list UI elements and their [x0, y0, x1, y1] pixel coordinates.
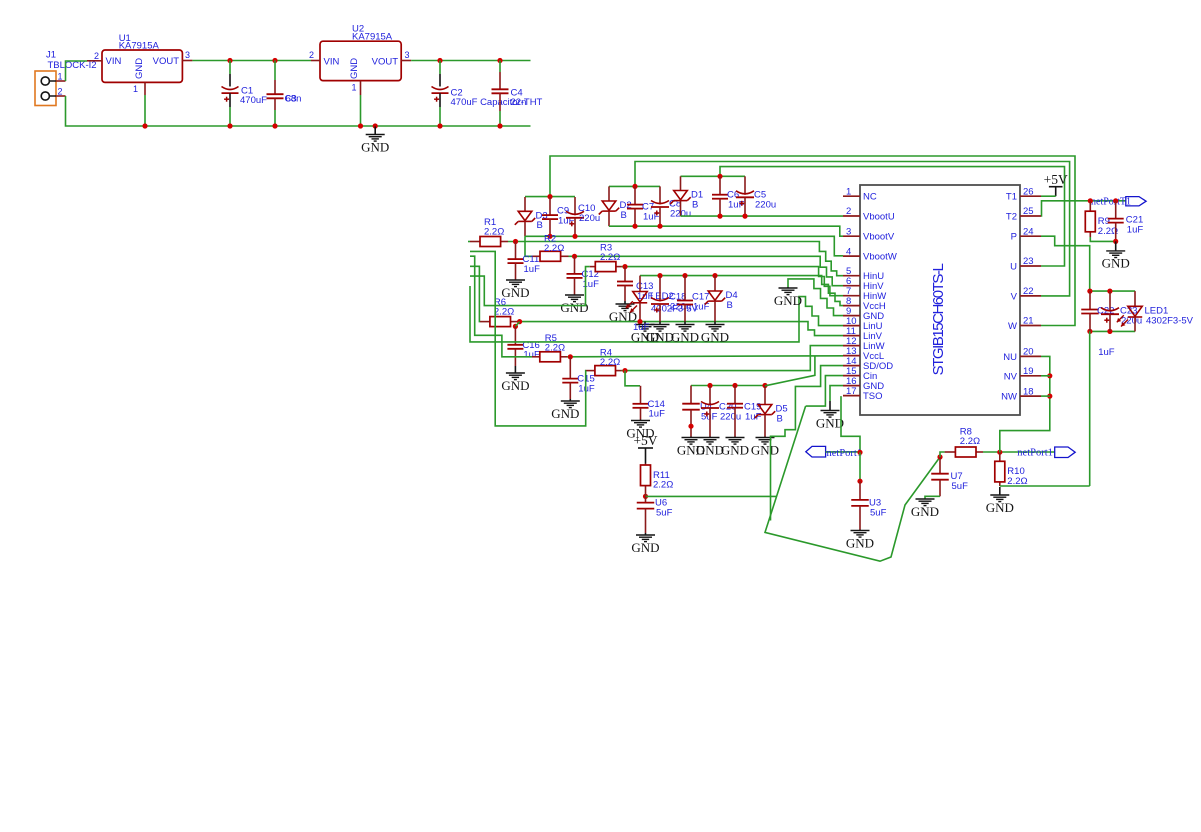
svg-text:GND: GND [349, 58, 360, 79]
svg-text:2: 2 [58, 87, 63, 97]
svg-text:NW: NW [1001, 392, 1017, 403]
junction at 685,275.6 [682, 273, 687, 278]
capacitor C21 1uF [1108, 201, 1144, 242]
ground GND under C11 [501, 280, 529, 300]
junction at 1090.3,200.8 [1088, 198, 1093, 203]
junction at 1049.8,375.8 [1047, 373, 1052, 378]
svg-text:GND: GND [986, 500, 1014, 515]
svg-text:220u: 220u [755, 199, 776, 210]
capacitor C3 68n [267, 61, 302, 127]
junction on U4 lead [688, 424, 693, 429]
svg-text:19: 19 [1023, 366, 1034, 377]
wire R11 junction to diagonal [646, 495, 777, 497]
svg-text:2: 2 [94, 51, 99, 61]
value label 1uF of C13 [633, 322, 650, 333]
value label 1uF of C22 [1098, 347, 1115, 358]
resistor R11 body [641, 465, 674, 491]
IC U5 STGIB15CH60TS-L [860, 185, 1020, 415]
resistor R9 body [1085, 211, 1118, 237]
svg-text:+5V: +5V [633, 433, 657, 448]
svg-text:5uF: 5uF [952, 481, 969, 492]
pin 21 W [1008, 316, 1041, 332]
junction at 230,60.5 [227, 58, 232, 63]
ground GND under R10 [986, 487, 1014, 515]
wire pin 15 Cin to diagonal [806, 376, 843, 407]
capacitor C19 1uF [727, 386, 762, 437]
svg-text:1uF: 1uF [1127, 224, 1144, 235]
capacitor C6 1uF [712, 176, 745, 216]
junction at 635,226.2 [632, 224, 637, 229]
wire R4 junction down to C14 [625, 371, 640, 386]
resistor R8 body [955, 427, 980, 458]
wire U7 to ground [925, 496, 940, 499]
svg-text:B: B [727, 300, 733, 311]
svg-text:V: V [1011, 291, 1018, 302]
junction at 575,236.3 [572, 234, 577, 239]
svg-text:68n: 68n [286, 93, 302, 104]
wire top rail A (D3 cluster to pin 21 W) [550, 156, 1075, 326]
svg-text:24: 24 [1023, 226, 1034, 237]
resistor R10 2.2ohm vertical leads [999, 452, 1001, 486]
pin 17 TSO [843, 386, 883, 402]
svg-text:netPortT1: netPortT1 [1091, 197, 1131, 208]
ground GND under U7 [911, 499, 939, 519]
wire bundle net D to R3 input [470, 267, 590, 306]
svg-text:1uF: 1uF [649, 409, 666, 420]
wire D5 to ground [764, 415, 766, 437]
capacitor U7 5uF [931, 471, 968, 496]
diode D2 zener lead [608, 186, 610, 201]
pin 16 GND [843, 376, 884, 392]
svg-text:KA7915A: KA7915A [352, 31, 393, 42]
svg-text:TSO: TSO [863, 391, 883, 402]
capacitor U3 5uF [851, 481, 886, 529]
wire C22 cluster top rail [1090, 290, 1135, 292]
wire bundle net E to R5 input [470, 256, 532, 357]
wire R2 output to pin 6 HinV [569, 256, 844, 285]
svg-text:1uF: 1uF [633, 322, 650, 333]
junction at 720,216.1 [717, 214, 722, 219]
svg-text:4: 4 [846, 246, 851, 257]
wire D2 cathode lead [608, 211, 610, 226]
svg-text:1uF: 1uF [745, 411, 762, 422]
svg-text:GND: GND [361, 139, 389, 154]
diode D4 zener lead [714, 276, 716, 291]
resistor R5 body [540, 333, 565, 362]
svg-text:NU: NU [1003, 352, 1017, 363]
svg-text:3: 3 [846, 226, 851, 237]
wire D3 cluster top rail [525, 196, 575, 198]
svg-text:220u: 220u [720, 411, 741, 422]
svg-text:18: 18 [1023, 386, 1034, 397]
diode D1 zener lead [680, 176, 682, 190]
svg-text:1: 1 [846, 186, 851, 197]
capacitor C23 220u polarized [1101, 291, 1142, 331]
junction at 145,126 [142, 123, 147, 128]
svg-text:GND: GND [774, 293, 802, 308]
wire VbootV rail to pin 3 [609, 226, 843, 236]
svg-text:1uF: 1uF [578, 383, 595, 394]
svg-text:KA7915A: KA7915A [119, 41, 160, 52]
svg-text:B: B [692, 199, 698, 210]
capacitor C18 220u polarized [651, 276, 691, 322]
wire pin 26 T1 to +5V [1041, 195, 1056, 197]
svg-text:23: 23 [1023, 256, 1034, 267]
wire U2 GND pin down [360, 95, 362, 126]
ground rail wire [145, 125, 531, 127]
ground GND pin 16 [816, 401, 844, 430]
pin 13 VccL [843, 346, 884, 362]
svg-text:22n: 22n [511, 97, 527, 108]
junction at 635,186.4 [632, 184, 637, 189]
pin 9 GND [843, 306, 884, 322]
capacitor C13 1uF [617, 267, 654, 302]
svg-text:B: B [537, 220, 543, 231]
ground GND under C15 [551, 399, 580, 421]
junction at 1109.9,331.4 [1107, 329, 1112, 334]
junction at 515.4,326.4 [513, 324, 518, 329]
wire D1 cluster top rail [681, 175, 746, 177]
svg-text:GND: GND [751, 442, 779, 457]
wire bundle net B to R4 input [470, 251, 586, 426]
wire pin 20 NU down to R8 node [1000, 356, 1050, 452]
ground GND under U4 [677, 437, 705, 458]
svg-text:+5V: +5V [1044, 172, 1068, 187]
junction at 1109.9,291.1 [1107, 289, 1112, 294]
svg-text:GND: GND [646, 329, 674, 344]
svg-text:1uF: 1uF [1098, 347, 1115, 358]
capacitor C15 1uF [562, 357, 595, 399]
svg-text:2: 2 [309, 50, 314, 60]
capacitor C10 220u polarized [566, 197, 600, 236]
diode D2 zener body [599, 200, 632, 221]
junction at 275,126 [272, 123, 277, 128]
wire C22 cluster bottom rail [1090, 330, 1135, 332]
junction at 860,481.2 [857, 479, 862, 484]
pin 8 VccH [843, 296, 886, 312]
power +5V symbol top right [1044, 172, 1068, 196]
capacitor C8 220u polarized [651, 186, 691, 226]
svg-text:STGIB15CH60TS-L: STGIB15CH60TS-L [930, 263, 947, 375]
ground GND under C21 [1102, 241, 1130, 270]
wire R1 output to pin 5 HinU [508, 242, 843, 276]
junction at 1115.7,200.8 [1113, 198, 1118, 203]
svg-text:25: 25 [1023, 206, 1034, 217]
capacitor U6 5uF [637, 496, 673, 533]
capacitor C12 1uF [567, 256, 600, 295]
resistor R1 body [480, 217, 504, 247]
svg-text:netPort1: netPort1 [827, 448, 863, 459]
junction at 999.8,452.2 [997, 450, 1002, 455]
wire pin 16 GND to ground [830, 386, 843, 401]
wire J1 pin2 to ground rail [66, 96, 146, 126]
resistor R2 body [540, 234, 564, 262]
junction at 440,126 [437, 123, 442, 128]
wire D3 rail drop to R2 input [525, 236, 533, 256]
wire netPort to U3 [859, 452, 861, 481]
svg-text:GND: GND [631, 540, 659, 555]
wire ground to pin 9 GND [788, 279, 843, 316]
svg-text:220u: 220u [670, 301, 691, 312]
wire R8 output to netPort1 [983, 451, 1055, 453]
wire pin 14 SD/OD net staircase [771, 366, 844, 521]
svg-text:17: 17 [846, 386, 857, 397]
resistor R3 2.2ohm [590, 266, 622, 268]
regulator U1 KA7915A [87, 33, 192, 95]
svg-text:220u: 220u [579, 213, 600, 224]
wire jog to C16 [515, 322, 519, 327]
svg-text:470uF: 470uF [240, 95, 267, 106]
svg-text:VbootV: VbootV [863, 232, 895, 243]
junction at 765,385.5 [762, 383, 767, 388]
pin 1 NC [843, 186, 877, 202]
resistor R6 2.2ohm [480, 321, 517, 323]
junction at 515.5,241.5 [513, 239, 518, 244]
pin 23 U [1010, 256, 1041, 272]
svg-text:2.2Ω: 2.2Ω [545, 342, 565, 353]
svg-text:5uF: 5uF [870, 507, 887, 518]
wire R10 bottom to right rail [1000, 485, 1090, 487]
pin 12 LinW [843, 336, 885, 352]
ground GND under C13 [609, 301, 637, 324]
wire D1 cathode lead [680, 201, 682, 217]
svg-text:VOUT: VOUT [153, 56, 180, 67]
svg-text:26: 26 [1023, 186, 1034, 197]
svg-text:2.2Ω: 2.2Ω [960, 436, 980, 447]
svg-text:22: 22 [1023, 286, 1034, 297]
junction at 519.6,321.6 [517, 319, 522, 324]
wire VbootU rail to pin 2 [681, 215, 844, 217]
wire VbootW rail to pin 4 [525, 236, 843, 256]
capacitor C1 470uF polarized [222, 61, 268, 127]
junction at 500,126 [497, 123, 502, 128]
wire U2 VOUT rail [411, 60, 530, 62]
capacitor U7 5uF lead [939, 457, 941, 474]
svg-text:GND: GND [134, 58, 145, 79]
pin 3 VbootV [843, 226, 895, 242]
pin 19 NV [1004, 366, 1041, 382]
wire top rail C (D1 cluster to pin 23 U) [720, 167, 1065, 266]
diode D4 zener body [705, 290, 738, 311]
junction at 645.5,496.4 [643, 494, 648, 499]
pin 5 HinU [843, 266, 884, 282]
pin 14 SD/OD [843, 356, 893, 372]
svg-text:GND: GND [551, 406, 579, 421]
ground GND under C14 [626, 420, 654, 441]
svg-text:GND: GND [721, 442, 749, 457]
svg-text:1: 1 [352, 83, 357, 93]
resistor R8 2.2ohm stubs [945, 451, 983, 453]
ground GND under LED2 [631, 322, 659, 345]
diode D5 zener lead [764, 386, 766, 405]
svg-text:5uF: 5uF [656, 507, 673, 518]
pin 7 HinW [843, 286, 886, 302]
wire pin 24 P to C22 cluster [1041, 236, 1090, 291]
wire R11 to junction [645, 492, 647, 496]
pin 4 VbootW [843, 246, 897, 262]
wire pin 18 NW [1041, 395, 1050, 397]
svg-text:2.2Ω: 2.2Ω [653, 480, 673, 491]
power +5V symbol [633, 433, 657, 463]
resistor R2 2.2ohm [533, 255, 569, 257]
svg-text:2.2Ω: 2.2Ω [494, 306, 514, 317]
wire U1 VOUT rail [192, 60, 311, 62]
wire pin 19 NV [1041, 375, 1050, 377]
pin 20 NU [1003, 347, 1041, 363]
junction at 440,60.5 [437, 58, 442, 63]
junction at 230,126 [227, 123, 232, 128]
diode D1 zener body [670, 190, 703, 211]
net port netPort1 (right) [1017, 447, 1075, 459]
svg-text:2.2Ω: 2.2Ω [600, 357, 620, 368]
ground GND under U6 [631, 533, 659, 555]
svg-text:3: 3 [405, 50, 410, 60]
wire R3 output to pin 7 HinW [622, 267, 844, 296]
resistor R11 2.2ohm vertical lead [645, 464, 647, 493]
wire bundle net A to pin 10 LinU [470, 286, 843, 342]
ground GND under C20 [696, 437, 724, 458]
resistor R10 body [995, 461, 1028, 487]
svg-text:20: 20 [1023, 347, 1034, 358]
ground GND under D5 [751, 437, 779, 458]
junction at 625,266.6 [622, 264, 627, 269]
junction at 640,321.6 [637, 319, 642, 324]
capacitor C5 220u polarized [736, 176, 776, 216]
junction netPort [857, 450, 862, 455]
svg-text:GND: GND [701, 329, 729, 344]
svg-text:VIN: VIN [324, 57, 340, 68]
wire jog to R8 [940, 452, 945, 457]
pin 24 P [1011, 226, 1041, 242]
pin 6 HinV [843, 276, 884, 292]
svg-text:GND: GND [846, 535, 874, 550]
junction at 660,226.2 [657, 224, 662, 229]
LED LED1 4302F3-5V [1117, 291, 1194, 331]
pin 2 VbootU [843, 206, 895, 222]
wire cluster bottom to R10 rail [1089, 331, 1091, 486]
resistor R9 2.2ohm vertical leads [1089, 201, 1091, 237]
capacitor C16 1uF [507, 326, 540, 366]
svg-text:1uF: 1uF [524, 264, 541, 275]
ground GND under C18 [646, 322, 674, 345]
pin 22 V [1011, 286, 1041, 302]
svg-text:1: 1 [133, 84, 138, 94]
svg-text:470uF Capacitor-THT: 470uF Capacitor-THT [451, 97, 543, 108]
svg-text:VIN: VIN [106, 56, 122, 67]
capacitor C7 1uF [627, 186, 660, 226]
wire bundle net C to R6 input [470, 266, 480, 321]
wire pin 25 T2 to netPortT1 [1041, 201, 1126, 216]
svg-text:U: U [1010, 262, 1017, 273]
junction at 625,370.6 [622, 368, 627, 373]
pin 26 T1 [1006, 186, 1041, 202]
svg-text:2.2Ω: 2.2Ω [484, 226, 504, 237]
wire R6 output to pin 11 LinV [517, 322, 843, 336]
ground GND under C12 [560, 295, 588, 315]
resistor R4 body [595, 348, 620, 376]
svg-text:NC: NC [863, 192, 877, 203]
svg-text:2.2Ω: 2.2Ω [544, 243, 564, 254]
net port netPort (left) [806, 446, 862, 459]
ground GND under U3 [846, 530, 874, 551]
svg-text:GND: GND [560, 300, 588, 315]
ground GND under D4 [701, 322, 729, 345]
pin 25 T2 [1006, 206, 1041, 222]
junction at 1115.7,241.4 [1113, 239, 1118, 244]
svg-text:GND: GND [911, 504, 939, 519]
resistor R4 2.2ohm [586, 370, 622, 372]
diode D3 zener body [515, 211, 548, 232]
svg-text:T1: T1 [1006, 192, 1017, 203]
ground GND to pin 9 [774, 287, 802, 308]
junction at 715,275.6 [712, 273, 717, 278]
capacitor C2 470uF polarized [432, 61, 543, 127]
svg-text:3: 3 [185, 50, 190, 60]
capacitor C17 1uF [677, 276, 710, 322]
resistor R6 body [490, 297, 514, 327]
svg-text:VbootW: VbootW [863, 252, 897, 263]
junction U7 R8 [937, 454, 942, 459]
resistor R3 body [595, 243, 620, 272]
svg-text:21: 21 [1023, 316, 1034, 327]
junction at 550,196.6 [547, 194, 552, 199]
svg-text:1: 1 [58, 72, 63, 82]
capacitor C20 220u polarized [701, 386, 741, 437]
junction at 570.3,356.8 [568, 354, 573, 359]
svg-text:W: W [1008, 321, 1017, 332]
diode D5 zener body [755, 404, 788, 425]
ground GND under C17 [671, 322, 699, 345]
net port netPortT1 (top right) [1091, 197, 1146, 208]
svg-text:GND: GND [816, 415, 844, 430]
svg-text:P: P [1011, 232, 1017, 243]
junction at 1089.9,331.4 [1087, 329, 1092, 334]
svg-text:GND: GND [1102, 256, 1130, 271]
svg-text:GND: GND [696, 442, 724, 457]
svg-text:4302F3-5V: 4302F3-5V [1146, 316, 1194, 327]
junction at 745,216.1 [742, 214, 747, 219]
capacitor C22 1uF [1081, 291, 1114, 331]
junction at 360.5,126 [358, 123, 363, 128]
pin 18 NW [1001, 386, 1041, 402]
capacitor C4 22n [492, 61, 527, 127]
diode D3 zener [524, 197, 526, 211]
junction at 1089.9,291.1 [1087, 289, 1092, 294]
capacitor C11 1uF [508, 242, 541, 281]
wire R5 output to pin 13 VccL [567, 356, 843, 357]
svg-text:T2: T2 [1006, 212, 1017, 223]
svg-text:B: B [621, 210, 627, 221]
wire pin 17 TSO to netPort [841, 396, 860, 452]
junction at 275,60.5 [272, 58, 277, 63]
wire R9 bottom to C21 bottom [1090, 237, 1115, 241]
capacitor C9 1uF [542, 197, 575, 236]
wire diagonal Cin rail to pin 13 riser [765, 356, 815, 386]
regulator U2 KA7915A [309, 24, 411, 96]
ground GND under C16 [501, 366, 529, 393]
junction at 375.2,126 [373, 123, 378, 128]
svg-text:VbootU: VbootU [863, 212, 895, 223]
junction at 1049.8,396.1 [1047, 394, 1052, 399]
capacitor U4 5uF [682, 386, 717, 437]
junction at 574.5,256.3 [572, 254, 577, 259]
wire D2 cluster top rail [609, 185, 660, 187]
resistor R1 2.2ohm [470, 241, 508, 243]
junction at 710,385.5 [707, 383, 712, 388]
wire top rail B (D2 cluster to pin 22 V) [635, 162, 1070, 296]
svg-text:2.2Ω: 2.2Ω [600, 252, 620, 263]
junction at 720,176.3 [717, 174, 722, 179]
